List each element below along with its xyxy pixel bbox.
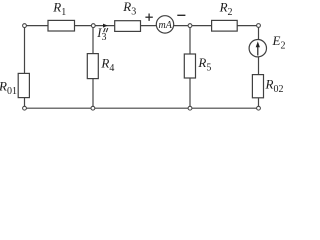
- resistor R3: [115, 21, 141, 32]
- polarity minus: [177, 14, 185, 16]
- current arrow I3: [103, 24, 108, 28]
- node bottom R4 junction: [91, 106, 95, 110]
- wire R5 branch vertical: [189, 26, 191, 109]
- resistor R01: [18, 73, 29, 97]
- node top-right: [257, 24, 261, 28]
- node top R4 junction: [91, 24, 95, 28]
- node after ammeter: [188, 24, 192, 28]
- resistor R5: [184, 54, 195, 78]
- source E2 arrow: [256, 41, 260, 55]
- wire bottom horizontal: [25, 107, 259, 109]
- node bottom R5 junction: [188, 106, 192, 110]
- resistor R2: [212, 20, 238, 31]
- wire R4 branch vertical: [92, 26, 94, 109]
- polarity plus: [145, 14, 152, 21]
- wire left vertical: [24, 26, 26, 109]
- resistor R4: [87, 54, 98, 79]
- wire top horizontal: [25, 25, 259, 27]
- ammeter U1 circle: [156, 16, 173, 33]
- svg-text:mA: mA: [159, 20, 173, 31]
- node bottom-left: [23, 106, 27, 110]
- node bottom-right: [257, 106, 261, 110]
- source E2 circle: [249, 40, 266, 57]
- resistor R02: [252, 75, 263, 98]
- wire right vertical: [258, 26, 260, 109]
- resistor R1: [48, 20, 75, 31]
- node top-left: [23, 24, 27, 28]
